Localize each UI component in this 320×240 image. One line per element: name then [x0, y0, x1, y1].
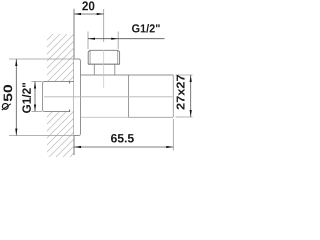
- wall face line: [73, 9, 75, 155]
- inlet neck: [94, 64, 115, 75]
- dim 27x27: dimension line: [190, 75, 192, 117]
- dim G1/2 top: dimension line with shelf: [88, 38, 165, 40]
- escutcheon flange (d50) side view: [74, 59, 81, 136]
- dim d50: extension lines: [9, 59, 74, 136]
- dim 65.5: dimension line: [74, 146, 173, 148]
- wall hatch section: [0, 0, 227, 161]
- socket thread relief ticks: [69, 82, 71, 112]
- dim G1/2 top: extension lines: [88, 32, 118, 50]
- dim 20: dimension line: [74, 13, 104, 15]
- inlet nut G1/2: [88, 50, 119, 64]
- dim d50: dimension line: [15, 59, 17, 136]
- dim G1/2 left: top arrow: [34, 82, 36, 89]
- dim G1/2 left: bottom arrow: [34, 105, 36, 112]
- dim 20: right arrow: [97, 13, 104, 15]
- dim 27x27: bottom arrow: [190, 110, 192, 117]
- dim 65.5: left arrow: [74, 146, 81, 148]
- dim 65.5: right extension line below handle: [172, 119, 174, 151]
- dim 20: left arrow: [74, 13, 81, 15]
- valve axis centerline: [44, 96, 173, 98]
- dim 27x27: label: [177, 75, 185, 110]
- flange right edge over body: [80, 61, 82, 134]
- dim d50: bottom arrow: [15, 129, 17, 136]
- dim 65.5: label: [111, 134, 134, 143]
- dim d50: diameter symbol: [2, 104, 8, 110]
- dim 20: extension line right: [103, 9, 105, 42]
- dim 65.5: right arrow: [166, 146, 173, 148]
- dim 27x27: extension lines: [176, 75, 193, 117]
- socket G1/2 behind wall (white cutout): [43, 82, 74, 112]
- dim G1/2 left: label: [22, 83, 31, 113]
- dim G1/2 left: dimension line: [34, 82, 36, 112]
- valve body block: [81, 75, 174, 117]
- dim 27x27: top arrow: [190, 75, 192, 82]
- dim 20: label: [82, 1, 94, 10]
- dim G1/2 left: extension lines: [32, 82, 43, 112]
- body/handle divider: [128, 75, 130, 117]
- dim G1/2 top: left arrow: [88, 38, 95, 40]
- dim d50: label: [4, 85, 13, 101]
- dim G1/2 top: right arrow: [111, 38, 118, 40]
- dim d50: top arrow: [15, 59, 17, 66]
- inlet vertical centerline: [103, 50, 105, 88]
- dim G1/2 top: label: [132, 24, 160, 33]
